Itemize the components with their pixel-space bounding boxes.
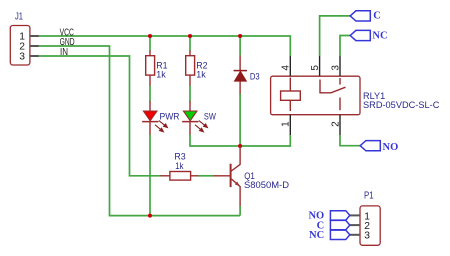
Q1 collector lead <box>231 164 240 171</box>
svg-text:D3: D3 <box>250 72 260 83</box>
resistor R1 <box>146 51 155 86</box>
svg-text:IN: IN <box>60 46 68 58</box>
svg-text:J1: J1 <box>15 12 23 23</box>
net tag NO at P1 <box>308 211 349 222</box>
wire VCC net <box>39 36 290 56</box>
wire R3 to Q1 base <box>198 175 214 177</box>
svg-text:NC: NC <box>309 230 324 241</box>
RLY1 coil <box>289 78 291 92</box>
RLY1 common contact <box>320 80 346 93</box>
SW LED emission arrows <box>195 121 207 132</box>
wire VCC to R1 <box>149 36 151 51</box>
wire VCC to D3 cathode <box>239 36 241 56</box>
wire D3 anode to collector node <box>239 93 241 146</box>
svg-text:1: 1 <box>281 121 292 127</box>
LED PWR <box>142 101 167 135</box>
connector J1 <box>10 26 39 66</box>
junction dot GND rail/PWR <box>148 214 152 218</box>
RLY1 pin 1 stub <box>289 115 291 135</box>
svg-text:3: 3 <box>19 52 25 63</box>
junction dot collector node <box>238 144 242 148</box>
wire relay pin 5 to C tag <box>320 16 350 56</box>
net tag NC <box>350 30 387 41</box>
svg-text:2: 2 <box>330 121 341 127</box>
RLY1 pin 5 stub <box>319 56 321 76</box>
connector P1 <box>350 206 380 245</box>
net tag NC at P1 <box>309 230 350 241</box>
wire SW LED to collector node <box>190 134 240 146</box>
diode D3 <box>234 56 247 94</box>
wire relay pin 2 to NO tag <box>340 135 360 146</box>
svg-text:P1: P1 <box>364 191 374 202</box>
svg-text:1k: 1k <box>175 161 183 172</box>
svg-text:C: C <box>373 11 381 22</box>
wire R2 to SW LED <box>189 85 191 101</box>
wire VCC to R2 <box>189 36 191 51</box>
LED SW <box>182 101 207 135</box>
svg-text:PWR: PWR <box>160 112 180 123</box>
junction dot VCC/D3 <box>238 34 242 38</box>
RLY1 NO contact <box>339 98 341 111</box>
Q1 emitter lead with arrow <box>231 179 239 186</box>
wire R1 to PWR LED <box>149 85 151 101</box>
svg-text:3: 3 <box>330 65 341 71</box>
wire GND net <box>39 46 240 216</box>
wire PWR LED to GND rail <box>149 134 151 215</box>
svg-text:NC: NC <box>372 31 387 42</box>
RLY1 NC contact <box>339 78 341 85</box>
PWR LED emission arrows <box>155 121 167 132</box>
RLY1 pin 2 stub <box>339 115 341 135</box>
svg-text:SW: SW <box>204 112 216 123</box>
relay RLY1 <box>271 56 360 135</box>
transistor Q1 <box>214 146 241 206</box>
Q1 base bar <box>230 164 232 187</box>
wire IN net <box>39 56 161 176</box>
junction dot VCC/R1 <box>148 34 152 38</box>
net tag C at P1 <box>317 220 350 231</box>
RLY1 pin 3 stub <box>339 56 341 76</box>
svg-text:S8050M-D: S8050M-D <box>244 180 289 191</box>
net tag NO <box>360 141 398 154</box>
wire relay pin 3 to NC tag <box>340 36 350 57</box>
resistor R3 <box>160 172 198 181</box>
svg-text:1k: 1k <box>156 70 166 81</box>
net tag C <box>350 11 381 22</box>
svg-text:3: 3 <box>364 231 370 242</box>
junction dot VCC/R2 <box>188 34 192 38</box>
svg-text:SRD-05VDC-SL-C: SRD-05VDC-SL-C <box>363 100 440 111</box>
wire emitter to GND rail <box>239 206 241 216</box>
svg-text:1k: 1k <box>196 70 206 81</box>
svg-text:NO: NO <box>383 142 399 153</box>
wire collector node to relay pin 1 <box>240 135 290 146</box>
Q1 base lead <box>214 175 230 177</box>
resistor R2 <box>186 51 195 86</box>
svg-text:4: 4 <box>281 65 292 71</box>
svg-text:5: 5 <box>310 65 321 71</box>
RLY1 pin 4 stub <box>289 56 291 76</box>
